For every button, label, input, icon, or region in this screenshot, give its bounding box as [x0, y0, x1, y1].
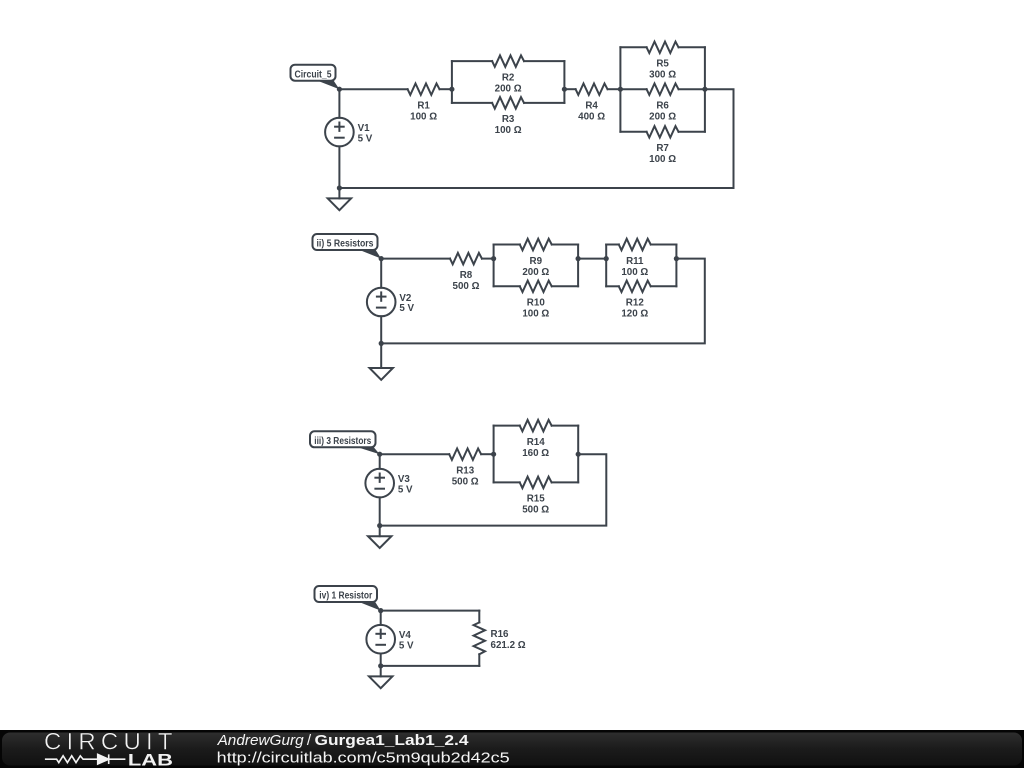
- wire left edge of R5/R6/R7 block: [619, 47, 621, 132]
- resistor R8: [450, 253, 482, 292]
- svg-text:100 Ω: 100 Ω: [410, 112, 437, 123]
- svg-text:500 Ω: 500 Ω: [452, 477, 479, 488]
- wire bottom branch left to R3: [452, 102, 492, 104]
- svg-text:R13: R13: [456, 466, 475, 477]
- voltage source V3: [365, 469, 413, 498]
- wire right edge of R9/R10 block: [577, 245, 579, 287]
- resistor R13: [449, 449, 481, 488]
- svg-text:500 Ω: 500 Ω: [522, 505, 549, 516]
- node M (R14/R15 right junction): [576, 452, 581, 457]
- svg-text:621.2 Ω: 621.2 Ω: [491, 640, 526, 651]
- wire top branch left to R5: [620, 46, 646, 48]
- resistor R15: [520, 477, 552, 516]
- wire right edge of R14/R15 block: [577, 426, 579, 483]
- ground: [370, 368, 393, 380]
- wire V2 minus to ground node: [380, 316, 382, 343]
- svg-text:200 Ω: 200 Ω: [649, 112, 676, 123]
- voltage source V2: [367, 288, 415, 317]
- ground: [369, 676, 392, 688]
- wire R3 to bottom branch right: [524, 102, 564, 104]
- resistor R16: [474, 622, 526, 654]
- node C (R2/R3 right junction): [562, 87, 567, 92]
- wire node A down to V1: [338, 89, 340, 118]
- node I (R11/R12 left junction): [604, 256, 609, 261]
- wire down to R16: [478, 611, 480, 623]
- voltage source V4: [366, 625, 414, 654]
- wire node C to R4: [564, 88, 575, 90]
- wire R15 to bottom branch right: [552, 481, 579, 483]
- svg-text:LAB: LAB: [128, 752, 173, 768]
- wire R4 to R5/R6/R7 block: [608, 88, 621, 90]
- resistor R10: [520, 281, 552, 320]
- wire node N down to V4: [380, 611, 382, 625]
- wire top branch left to R9: [494, 244, 520, 246]
- svg-text:http://circuitlab.com/c5m9qub2: http://circuitlab.com/c5m9qub2d42c5: [217, 749, 510, 766]
- wire node A to R1: [339, 88, 407, 90]
- resistor R12: [619, 281, 651, 320]
- wire right edge of R5/R6/R7 block: [704, 47, 706, 132]
- svg-text:5 V: 5 V: [399, 640, 414, 651]
- label iii) 3 Resistors callout: [310, 431, 380, 454]
- wire R10 to bottom branch right: [552, 285, 578, 287]
- wire node K to R13: [380, 453, 450, 455]
- wire left edge of R9/R10 block: [493, 245, 495, 287]
- wire node F to R8: [381, 258, 450, 260]
- label iv) 1 Resistor callout: [315, 586, 381, 611]
- svg-text:100 Ω: 100 Ω: [649, 154, 676, 165]
- wire R13 to parallel block R14/R15: [481, 453, 493, 455]
- svg-text:R3: R3: [502, 114, 515, 125]
- wire left edge of R2/R3 block: [451, 61, 453, 103]
- svg-text:200 Ω: 200 Ω: [522, 267, 549, 278]
- wire node H to R11/R12 block: [578, 258, 606, 260]
- wire bottom return to ground node: [381, 665, 480, 667]
- footer author line: [217, 732, 510, 766]
- resistor R3: [492, 97, 524, 136]
- wire V3 minus to ground node: [379, 497, 381, 525]
- resistor R7: [647, 126, 679, 165]
- svg-text:5 V: 5 V: [399, 303, 414, 314]
- svg-text:R7: R7: [656, 143, 669, 154]
- svg-text:Gurgea1_Lab1_2.4: Gurgea1_Lab1_2.4: [315, 732, 470, 749]
- CircuitLab logo: resistor-diode glyph: [45, 754, 125, 764]
- wire right edge of R2/R3 block: [563, 61, 565, 103]
- svg-text:5 V: 5 V: [358, 133, 373, 144]
- ground: [368, 536, 391, 548]
- wire R6 to mid branch right: [679, 88, 705, 90]
- svg-text:R4: R4: [585, 101, 598, 112]
- resistor R2: [492, 55, 524, 94]
- svg-text:R15: R15: [527, 494, 546, 505]
- node H (R9/R10 right junction): [576, 256, 581, 261]
- node G (R9/R10 left junction): [491, 256, 496, 261]
- wire to ground symbol: [379, 526, 381, 537]
- wire R8 to parallel block R9/R10: [482, 258, 494, 260]
- ground: [328, 198, 351, 210]
- svg-text:AndrewGurg: AndrewGurg: [217, 732, 305, 749]
- wire R12 to bottom branch right: [651, 285, 677, 287]
- resistor R1: [408, 83, 440, 122]
- resistor R11: [619, 239, 651, 278]
- svg-text:R9: R9: [530, 256, 543, 267]
- svg-text:R2: R2: [502, 72, 515, 83]
- svg-text:500 Ω: 500 Ω: [453, 281, 480, 292]
- label ii) 5 Resistors callout: [313, 234, 382, 259]
- wire bottom branch left to R7: [620, 131, 646, 133]
- wire top branch left to R2: [452, 60, 492, 62]
- svg-text:R10: R10: [527, 298, 546, 309]
- svg-text:R6: R6: [656, 101, 669, 112]
- svg-text:R12: R12: [626, 298, 645, 309]
- wire bottom branch left to R12: [606, 285, 619, 287]
- wire node N to R16 top corner: [381, 610, 480, 612]
- voltage source V1: [325, 118, 373, 147]
- svg-text:iii) 3 Resistors: iii) 3 Resistors: [314, 435, 371, 447]
- svg-text:100 Ω: 100 Ω: [522, 309, 549, 320]
- resistor R6: [647, 83, 679, 122]
- wire V4 minus to ground node: [380, 654, 382, 666]
- svg-text:R5: R5: [656, 59, 669, 70]
- svg-text:R1: R1: [417, 101, 430, 112]
- svg-text:160 Ω: 160 Ω: [522, 448, 549, 459]
- svg-text:R11: R11: [626, 256, 644, 267]
- wire R5 to top branch right: [679, 46, 705, 48]
- node A (V1+ / R1 left): [337, 87, 342, 92]
- node K (V3+ / R13 left): [377, 452, 382, 457]
- wire bottom branch left to R15: [494, 481, 520, 483]
- wire R11 to top branch right: [651, 244, 677, 246]
- node D (R5/R6/R7 left junction): [618, 87, 623, 92]
- resistor R9: [520, 239, 552, 278]
- resistor R4: [576, 83, 608, 122]
- wire to ground symbol: [338, 188, 340, 198]
- resistor R5: [647, 42, 679, 81]
- ground node of circuit 4: [378, 663, 383, 668]
- wire return path node J to ground node: [381, 259, 705, 344]
- svg-text:100 Ω: 100 Ω: [621, 267, 648, 278]
- resistor R14: [520, 420, 552, 459]
- wire V1 minus to ground node: [338, 146, 340, 188]
- label Circuit_5 callout: [291, 65, 340, 90]
- wire to ground symbol: [380, 666, 382, 677]
- wire mid branch left to R6: [620, 88, 646, 90]
- node L (R14/R15 left junction): [491, 452, 496, 457]
- svg-text:400 Ω: 400 Ω: [578, 112, 605, 123]
- svg-text:300 Ω: 300 Ω: [649, 70, 676, 81]
- wire to ground symbol: [380, 343, 382, 368]
- svg-text:200 Ω: 200 Ω: [495, 83, 522, 94]
- wire node F down to V2: [380, 259, 382, 288]
- wire return path node E to ground node: [339, 89, 733, 188]
- node N (V4+ / R16 top): [378, 608, 383, 613]
- wire R16 to bottom corner: [478, 654, 480, 666]
- wire R2 to top branch right: [524, 60, 564, 62]
- wire R7 to bottom branch right: [679, 131, 705, 133]
- wire bottom branch left to R10: [494, 285, 520, 287]
- node F (V2+ / R8 left): [379, 256, 384, 261]
- svg-text:5 V: 5 V: [398, 484, 413, 495]
- ground node of circuit 3: [377, 523, 382, 528]
- wire R14 to top branch right: [552, 425, 579, 427]
- svg-text:R16: R16: [491, 629, 510, 640]
- wire top branch left to R11: [606, 244, 619, 246]
- ground node of circuit 2: [379, 341, 384, 346]
- node B (R2/R3 left junction): [449, 87, 454, 92]
- svg-text:100 Ω: 100 Ω: [495, 125, 522, 136]
- wire R1 to parallel block R2/R3: [440, 88, 452, 90]
- svg-text:Circuit_5: Circuit_5: [295, 68, 332, 80]
- svg-text:R14: R14: [527, 437, 546, 448]
- svg-text:iv) 1 Resistor: iv) 1 Resistor: [319, 590, 372, 602]
- wire node K down to V3: [379, 454, 381, 469]
- node E (R5/R6/R7 right junction): [702, 87, 707, 92]
- wire return path node M to ground node: [380, 454, 607, 525]
- wire top branch left to R14: [494, 425, 520, 427]
- ground node of circuit 1: [337, 185, 342, 190]
- wire left edge of R14/R15 block: [493, 426, 495, 483]
- wire right edge of R11/R12 block: [675, 245, 677, 287]
- wire left edge of R11/R12 block: [605, 245, 607, 287]
- svg-text:ii) 5 Resistors: ii) 5 Resistors: [317, 238, 374, 250]
- wire R9 to top branch right: [552, 244, 578, 246]
- svg-text:120 Ω: 120 Ω: [621, 309, 648, 320]
- svg-text:R8: R8: [460, 270, 473, 281]
- node J (R11/R12 right junction): [674, 256, 679, 261]
